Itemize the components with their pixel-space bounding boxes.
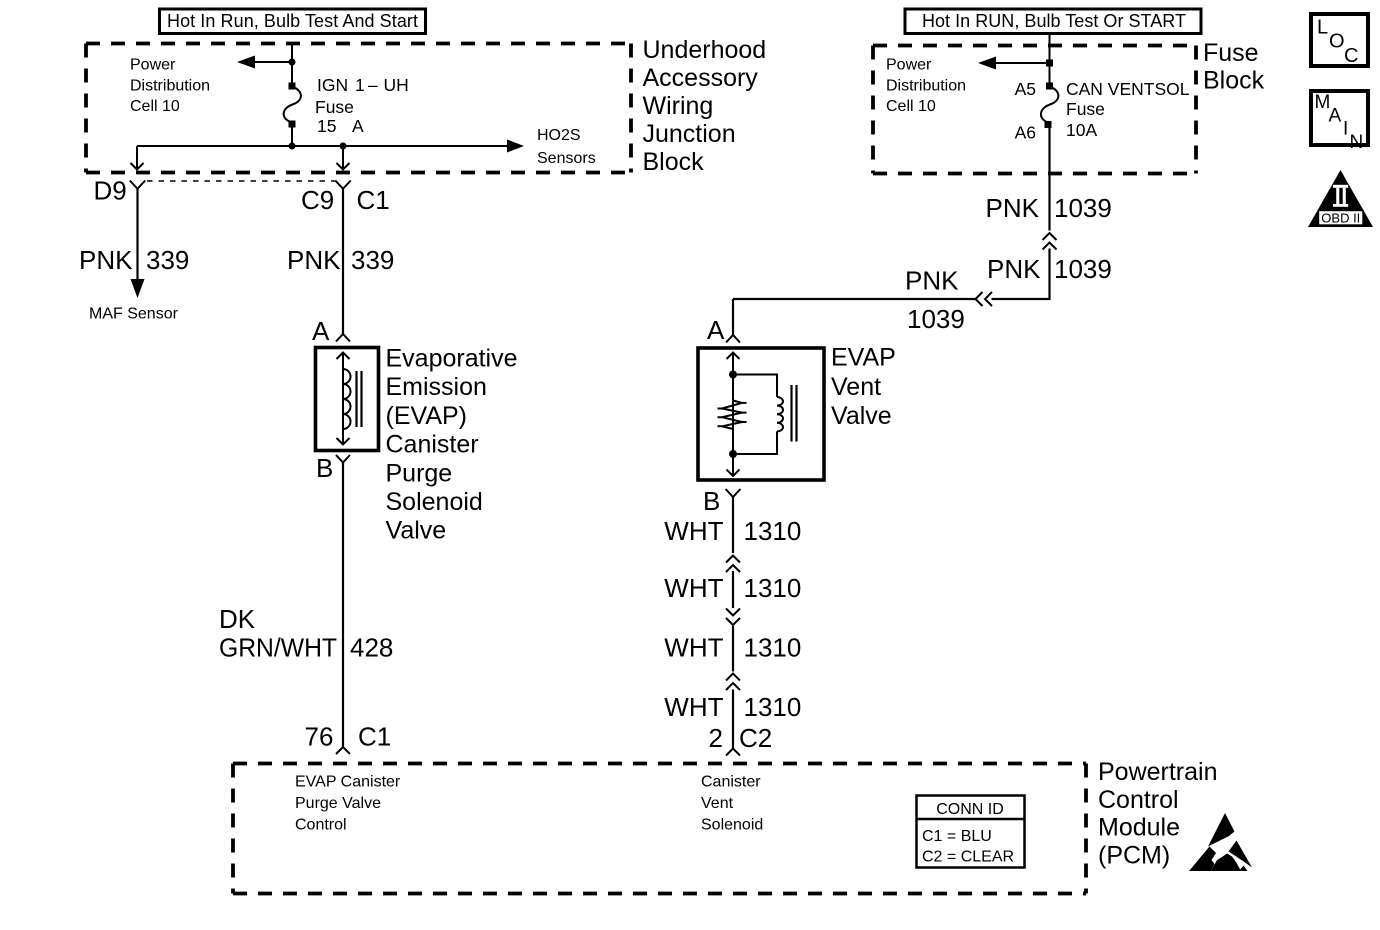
wire: WHT 1310 segment 4 (732, 690, 734, 749)
svg-text:1: 1 (355, 75, 365, 95)
PCM label (1098, 758, 1218, 869)
svg-text:L: L (1317, 17, 1328, 39)
pin labels 76 C1 (PCM) (305, 722, 392, 752)
junction block label (643, 36, 767, 176)
svg-text:C1: C1 (358, 722, 391, 752)
junction dot (vent valve bottom) (729, 450, 737, 458)
svg-text:1310: 1310 (744, 573, 802, 603)
svg-text:Purge Valve: Purge Valve (295, 795, 381, 812)
wire: fuse output to bus (291, 123, 293, 147)
wire: DK GRN/WHT 428 to PCM (342, 463, 344, 748)
svg-text:Purge: Purge (386, 459, 453, 487)
coil L2 return branch (733, 431, 777, 454)
svg-text:Underhood: Underhood (643, 36, 767, 64)
vent valve V1: EVAP vent valve (box) (698, 348, 824, 480)
wire: feed into fuse block (1049, 34, 1051, 84)
svg-text:Block: Block (643, 148, 705, 176)
fuse F2 pin labels A5 A6 (1015, 79, 1036, 143)
svg-text:EVAP Canister: EVAP Canister (295, 774, 401, 791)
pin labels 2 C2 (PCM) (709, 723, 773, 753)
svg-text:C: C (1344, 45, 1358, 67)
svg-text:GRN/WHT: GRN/WHT (219, 633, 337, 663)
PCM module (dashed box) (233, 764, 1086, 894)
svg-text:A: A (352, 116, 364, 136)
svg-text:Junction: Junction (643, 120, 736, 148)
svg-text:PNK: PNK (287, 245, 341, 275)
svg-text:WHT: WHT (664, 516, 723, 546)
svg-text:PNK: PNK (987, 254, 1041, 284)
svg-text:CONN ID: CONN ID (936, 801, 1004, 818)
svg-text:CAN VENTSOL: CAN VENTSOL (1066, 79, 1190, 99)
svg-text:15: 15 (317, 116, 336, 136)
svg-text:Sensors: Sensors (537, 150, 596, 167)
connector pin B (purge valve) (336, 455, 350, 463)
svg-text:Cell 10: Cell 10 (886, 98, 936, 115)
svg-text:Evaporative: Evaporative (386, 345, 518, 373)
wire label PNK 339 (center) (287, 245, 394, 275)
fuse F1: IGN 1-UH 15A (284, 83, 301, 128)
svg-text:339: 339 (351, 245, 394, 275)
vent valve label (831, 344, 896, 430)
junction dot (vent valve top) (729, 371, 737, 379)
svg-text:–: – (368, 75, 378, 95)
wire: WHT 1310 segment 3 (732, 626, 734, 672)
junction dot (340, 143, 347, 150)
feed label box: Hot In Run, Bulb Test And Start (160, 9, 426, 34)
ESD sensitive symbol (1189, 813, 1252, 871)
svg-text:Power: Power (886, 57, 932, 74)
coil L2 (vent valve) (777, 397, 783, 431)
wire: WHT 1310 segment 2 (732, 571, 734, 608)
svg-text:Powertrain: Powertrain (1098, 758, 1218, 786)
svg-text:10A: 10A (1066, 120, 1097, 140)
svg-text:1039: 1039 (1054, 254, 1112, 284)
wire label PNK 1039 (upper) (986, 193, 1112, 223)
junction dot (289, 59, 296, 66)
solenoid L1 internal arrow (337, 353, 350, 445)
svg-text:Distribution: Distribution (886, 78, 966, 95)
svg-text:1310: 1310 (744, 516, 802, 546)
PCM function label: canister vent solenoid (701, 774, 763, 834)
svg-text:Block: Block (1203, 67, 1265, 95)
splice chevrons down (2) (726, 609, 740, 626)
wire: bus drop to D9 (131, 146, 144, 170)
junction dot (289, 143, 296, 150)
solenoid L1 label (386, 345, 518, 545)
power distribution note (right) (886, 57, 966, 116)
svg-text:Valve: Valve (386, 517, 447, 545)
svg-text:Emission: Emission (386, 373, 487, 401)
svg-text:Cell 10: Cell 10 (130, 98, 180, 115)
solenoid L1 coil (343, 369, 351, 429)
solenoid L1 core (357, 371, 362, 427)
svg-text:1039: 1039 (907, 304, 965, 334)
wire: feed into junction block (left) (291, 44, 293, 85)
wire: bus to HO2S sensors (137, 140, 524, 153)
wire: drop to vent valve pin A (732, 299, 734, 335)
svg-text:A: A (707, 315, 725, 345)
svg-text:Canister: Canister (701, 774, 761, 791)
MAIN legend box (1311, 91, 1368, 153)
connector pin A (vent valve) (726, 335, 740, 343)
svg-text:Distribution: Distribution (130, 78, 210, 95)
svg-text:Vent: Vent (701, 795, 734, 812)
svg-text:A: A (312, 316, 330, 346)
svg-text:1039: 1039 (1054, 193, 1112, 223)
fuse F2: CAN VENTSOL 10A (1041, 83, 1058, 129)
connector dashed tie line (147, 180, 335, 182)
wire label PNK 339 (left) (79, 245, 189, 275)
svg-text:IGN: IGN (317, 75, 348, 95)
fuse F1 value label (315, 75, 409, 136)
svg-text:MAF Sensor: MAF Sensor (89, 306, 179, 323)
svg-text:Fuse: Fuse (1066, 99, 1105, 119)
fuse F2 value label (1066, 79, 1190, 140)
wire: PNK 339 to MAF sensor (131, 189, 145, 298)
feed label box: Hot In RUN, Bulb Test Or START (905, 9, 1201, 34)
wire label WHT 1310 (4) (664, 692, 801, 722)
wire: PNK 1039 from fuse block (1048, 123, 1050, 231)
wire: power distribution branch arrow (left) (237, 56, 292, 69)
svg-text:Canister: Canister (386, 431, 479, 459)
wire label WHT 1310 (3) (664, 633, 801, 663)
svg-text:Hot In Run, Bulb Test And Star: Hot In Run, Bulb Test And Start (167, 11, 418, 31)
splice chevrons (vertical) (1043, 233, 1057, 250)
svg-text:Vent: Vent (831, 373, 881, 401)
wire: PNK 1039 continues to corner (992, 249, 1050, 300)
svg-text:Wiring: Wiring (643, 92, 714, 120)
vent valve internal arrow line (727, 353, 740, 477)
svg-text:(EVAP): (EVAP) (386, 402, 468, 430)
svg-text:Solenoid: Solenoid (386, 488, 483, 516)
svg-text:WHT: WHT (664, 692, 723, 722)
svg-text:1310: 1310 (744, 633, 802, 663)
svg-text:428: 428 (350, 633, 393, 663)
PCM function label: EVAP canister purge valve control (295, 774, 401, 834)
svg-text:UH: UH (384, 75, 409, 95)
svg-text:Fuse: Fuse (315, 97, 354, 117)
svg-text:HO2S: HO2S (537, 127, 581, 144)
svg-text:DK: DK (219, 604, 256, 634)
junction block U1: Underhood Accessory Wiring Junction Block (dashed box) (86, 44, 631, 173)
svg-text:O: O (1329, 31, 1345, 53)
connector pin A (purge valve) (336, 334, 350, 342)
pin labels C9 C1 (301, 185, 390, 215)
svg-text:(PCM): (PCM) (1098, 841, 1170, 869)
svg-text:Control: Control (295, 817, 347, 834)
wire: bus drop to C9 (337, 146, 350, 170)
svg-text:Power: Power (130, 57, 176, 74)
svg-text:C1: C1 (357, 185, 390, 215)
svg-text:PNK: PNK (905, 266, 959, 296)
solenoid L1: EVAP canister purge solenoid valve (box) (316, 348, 379, 451)
OBD II symbol (1308, 170, 1373, 227)
svg-text:I: I (1343, 119, 1348, 140)
svg-text:76: 76 (305, 722, 334, 752)
svg-text:A6: A6 (1015, 123, 1036, 143)
fuse block FB (dashed box) (873, 46, 1196, 174)
wire: power distribution branch arrow (right) (978, 57, 1050, 70)
svg-text:B: B (316, 453, 333, 483)
wire: horizontal run to EVAP vent valve (733, 298, 976, 300)
fuse block label (1203, 39, 1265, 95)
svg-text:OBD II: OBD II (1321, 210, 1360, 225)
svg-text:A: A (1329, 106, 1342, 127)
splice chevrons up (1) (726, 556, 740, 573)
svg-text:339: 339 (146, 245, 189, 275)
svg-text:1310: 1310 (744, 692, 802, 722)
svg-text:PNK: PNK (986, 193, 1040, 223)
connector pin C9/C1 (335, 181, 350, 189)
svg-text:EVAP: EVAP (831, 344, 896, 372)
svg-text:Valve: Valve (831, 402, 892, 430)
svg-text:C2 = CLEAR: C2 = CLEAR (922, 849, 1014, 866)
svg-text:C1 = BLU: C1 = BLU (922, 828, 992, 845)
svg-text:A5: A5 (1015, 79, 1036, 99)
svg-text:Accessory: Accessory (643, 64, 759, 92)
svg-text:C2: C2 (739, 723, 772, 753)
splice chevrons (horizontal) (976, 292, 993, 306)
svg-text:B: B (703, 486, 720, 516)
wire: PNK 339 to EVAP purge solenoid (342, 189, 344, 334)
svg-text:PNK: PNK (79, 245, 133, 275)
wire label PNK 1039 (lower) (987, 254, 1112, 284)
connector pin D9 (130, 181, 145, 189)
wire: WHT 1310 segment 1 (732, 497, 734, 553)
svg-text:2: 2 (709, 723, 723, 753)
junction square (1046, 60, 1053, 67)
connector ID table (917, 796, 1025, 868)
LOC legend box (1311, 14, 1368, 67)
connector pin B (vent valve) (726, 489, 741, 497)
connector pin 2/C2 (726, 749, 740, 756)
svg-text:Control: Control (1098, 786, 1179, 814)
wire label DK GRN/WHT 428 (219, 604, 393, 663)
power distribution note (left) (130, 57, 210, 116)
svg-text:Module: Module (1098, 814, 1180, 842)
svg-text:WHT: WHT (664, 573, 723, 603)
wire label WHT 1310 (2) (664, 573, 801, 603)
coil L2 core (792, 385, 797, 442)
wire label WHT 1310 (1) (664, 516, 801, 546)
resistor R1 (vent valve) (718, 401, 747, 430)
svg-text:Solenoid: Solenoid (701, 817, 763, 834)
svg-text:C9: C9 (301, 185, 334, 215)
svg-text:Fuse: Fuse (1203, 39, 1259, 67)
svg-text:D9: D9 (94, 176, 127, 206)
svg-text:Hot In RUN, Bulb Test Or START: Hot In RUN, Bulb Test Or START (922, 11, 1186, 31)
connector pin 76/C1 (336, 747, 350, 754)
svg-text:N: N (1350, 132, 1364, 153)
splice chevrons up (3) (726, 674, 740, 691)
coil L2 branch (vent valve) (733, 375, 777, 398)
svg-text:WHT: WHT (664, 633, 723, 663)
HO2S sensors label (537, 127, 596, 167)
